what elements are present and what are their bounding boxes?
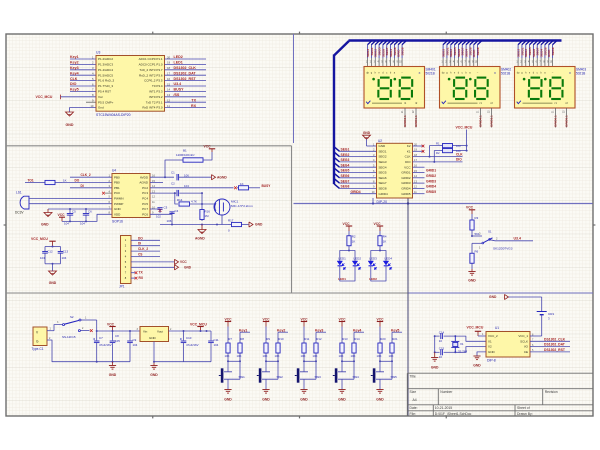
svg-text:C3: C3 xyxy=(164,206,168,210)
wire output caps ground rail xyxy=(184,361,212,363)
svg-text:10K: 10K xyxy=(389,354,394,358)
wire JP1 pins xyxy=(131,239,160,241)
svg-text:DIO: DIO xyxy=(456,158,462,162)
wire speaker to U4 PWMN xyxy=(29,197,112,199)
capacitor C1 106 xyxy=(176,174,178,180)
wire R4 to LEDs xyxy=(379,250,381,252)
svg-text:AGND: AGND xyxy=(217,175,227,179)
svg-text:SEG6: SEG6 xyxy=(341,174,350,178)
wire U4 AGND pin15 xyxy=(150,182,163,184)
driver chip U2 DIP-20 xyxy=(377,143,413,198)
svg-text:VCC_MCU: VCC_MCU xyxy=(31,237,48,241)
resistor R3 5K1 xyxy=(471,214,473,220)
svg-text:Key4: Key4 xyxy=(70,71,79,75)
svg-text:5021B: 5021B xyxy=(426,72,435,76)
wire U4 AVDD pin16 xyxy=(150,176,174,178)
sheet zone ticks xyxy=(152,32,154,34)
svg-text:PC0: PC0 xyxy=(114,191,120,195)
resistor R15 1K xyxy=(38,182,45,184)
svg-text:JP1: JP1 xyxy=(119,284,125,288)
svg-text:R2: R2 xyxy=(436,151,440,155)
ground GND below SW3 xyxy=(300,389,307,391)
ground GND below SW1 xyxy=(224,389,231,391)
svg-text:TO1: TO1 xyxy=(28,179,34,183)
push button SW2 xyxy=(265,361,267,372)
svg-text:PC7: PC7 xyxy=(142,207,148,211)
resistor R6 xyxy=(471,248,473,254)
bus SEG horizontal xyxy=(349,39,562,41)
svg-text:VCC: VCC xyxy=(180,260,187,264)
svg-text:GRID3.1: GRID3.1 xyxy=(490,115,494,127)
svg-text:106: 106 xyxy=(167,219,172,223)
resistor R21 10K xyxy=(391,338,393,343)
svg-text:D:\01F_\Sheet1.SchDoc: D:\01F_\Sheet1.SchDoc xyxy=(435,412,472,416)
svg-text:RxD INT4 P3.0: RxD INT4 P3.0 xyxy=(142,106,163,110)
wire U3 right pins xyxy=(165,58,207,60)
section divider vertical grey (middle) xyxy=(291,146,293,293)
svg-text:VCC: VCC xyxy=(58,213,66,217)
svg-text:GND: GND xyxy=(49,281,57,285)
svg-text:SEG1: SEG1 xyxy=(379,149,387,153)
wire resistor junction Key1 xyxy=(227,358,229,361)
push button SW3 xyxy=(303,361,305,372)
svg-text:VDD: VDD xyxy=(114,212,121,216)
svg-text:R21: R21 xyxy=(392,337,398,341)
svg-text:PWMN: PWMN xyxy=(114,197,124,201)
svg-text:GRID1.1: GRID1.1 xyxy=(414,115,418,127)
svg-text:10: 10 xyxy=(90,104,94,108)
section divider vertical blue (top) xyxy=(293,34,295,143)
svg-text:SEG3: SEG3 xyxy=(341,158,350,162)
wire U4 pin2 xyxy=(62,182,112,184)
svg-text:Size: Size xyxy=(410,390,417,394)
svg-text:DS1302_RST: DS1302_RST xyxy=(174,77,197,81)
wire SM401 bottom pins xyxy=(404,108,406,128)
svg-text:32.768: 32.768 xyxy=(458,350,468,354)
svg-text:ADC0 CCP1 P1.0: ADC0 CCP1 P1.0 xyxy=(139,63,163,67)
svg-text:10-21-2015: 10-21-2015 xyxy=(435,406,452,410)
no-connect X at U4 pin4 xyxy=(102,192,105,195)
svg-text:1K: 1K xyxy=(352,240,356,244)
wire S2 common to VCC rail xyxy=(81,319,97,321)
svg-text:SEG8: SEG8 xyxy=(379,187,387,191)
svg-text:PB0: PB0 xyxy=(114,181,120,185)
svg-text:X: X xyxy=(419,71,421,75)
wire U4 GND rail xyxy=(48,208,112,210)
wire U2 right pins xyxy=(413,145,425,147)
svg-text:AGND: AGND xyxy=(195,237,205,241)
svg-text:SW1: SW1 xyxy=(239,375,246,379)
svg-text:DIO: DIO xyxy=(70,82,77,86)
svg-text:PC5: PC5 xyxy=(142,202,148,206)
svg-text:PB1: PB1 xyxy=(114,186,120,190)
svg-text:C15: C15 xyxy=(439,347,445,351)
capacitor C10 47uF/16V xyxy=(183,331,185,340)
svg-text:C11: C11 xyxy=(214,338,219,342)
svg-text:VCC_MCU: VCC_MCU xyxy=(456,126,473,130)
crystal Y1 32.768 xyxy=(454,336,456,341)
svg-text:DS1302_DAT: DS1302_DAT xyxy=(174,71,197,75)
svg-text:AVDD: AVDD xyxy=(140,175,149,179)
svg-text:RxD_2 INT2 P3.6: RxD_2 INT2 P3.6 xyxy=(139,73,163,77)
wire VDD rail to U4 pin8 xyxy=(62,214,112,221)
power port VCC at JP1 xyxy=(175,259,179,264)
svg-text:PC2: PC2 xyxy=(142,186,148,190)
wire U1 VCC_1 to battery xyxy=(530,335,542,337)
svg-text:Vin: Vin xyxy=(143,329,148,333)
svg-text:R13: R13 xyxy=(342,337,348,341)
svg-text:Date:: Date: xyxy=(410,406,418,410)
wire Key4 to R14 xyxy=(354,331,364,333)
svg-text:104: 104 xyxy=(80,221,85,225)
svg-text:VCC: VCC xyxy=(343,222,351,226)
svg-text:VCC: VCC xyxy=(225,317,233,321)
svg-text:C2: C2 xyxy=(171,182,175,186)
ferrite bead B1 120R/100mhz xyxy=(165,160,183,177)
svg-text:S2: S2 xyxy=(70,315,74,319)
svg-text:DI: DI xyxy=(138,242,141,246)
capacitor C6 104 xyxy=(85,208,87,210)
bus SEG vertical xyxy=(333,55,335,185)
svg-text:Number: Number xyxy=(440,390,453,394)
wire analog ground rail xyxy=(160,224,228,226)
section divider vertical x=408 xyxy=(407,197,409,416)
power port AGND right of C1 xyxy=(212,175,216,180)
svg-text:C5: C5 xyxy=(72,210,76,214)
svg-text:DIP-20: DIP-20 xyxy=(377,200,388,204)
svg-text:C1: C1 xyxy=(171,171,175,175)
svg-text:C9: C9 xyxy=(133,338,137,342)
svg-text:DO: DO xyxy=(138,236,143,240)
svg-text:10: 10 xyxy=(439,339,443,343)
svg-text:T0 P3.4: T0 P3.4 xyxy=(152,84,163,88)
ground GND crystal xyxy=(431,357,438,359)
connector Type-C1 xyxy=(33,327,47,346)
svg-text:DS1302_RST: DS1302_RST xyxy=(544,348,566,352)
svg-text:R16: R16 xyxy=(205,210,211,214)
svg-text:GND: GND xyxy=(489,295,497,299)
wire resistor junction Key4 xyxy=(341,358,343,361)
svg-text:File:: File: xyxy=(410,412,416,416)
svg-text:BUSY: BUSY xyxy=(174,88,185,92)
wire SM403 bottom pins xyxy=(555,108,557,128)
wire U4 PC2 pin14 to BUSY xyxy=(150,187,234,189)
resistor R9 10K xyxy=(265,338,267,343)
svg-text:SEG9: SEG9 xyxy=(400,47,404,55)
svg-text:MIC-4.5*2.2mm: MIC-4.5*2.2mm xyxy=(231,204,253,208)
svg-text:Sheet of: Sheet of xyxy=(517,406,530,410)
svg-text:104: 104 xyxy=(40,256,45,260)
7-segment display SM401 xyxy=(364,67,425,109)
wire U4 PC3 pin13 to mic xyxy=(150,192,176,194)
svg-text:VCC: VCC xyxy=(374,222,382,226)
wire U4 pin1 xyxy=(70,176,112,178)
svg-text:VCC_MCU: VCC_MCU xyxy=(190,322,207,326)
svg-text:C12: C12 xyxy=(47,249,53,253)
resistor R13 10K xyxy=(341,338,343,343)
wire X1 X2 crystal network xyxy=(455,336,486,341)
svg-text:VCC: VCC xyxy=(107,322,115,326)
svg-text:GRID3: GRID3 xyxy=(401,181,411,185)
wire SW3 to ground xyxy=(303,379,305,389)
svg-text:P1.6 RxD_3: P1.6 RxD_3 xyxy=(98,79,115,83)
capacitor C8 105 xyxy=(112,331,114,340)
svg-text:DO: DO xyxy=(75,179,80,183)
svg-text:X: X xyxy=(569,71,571,75)
svg-text:1K: 1K xyxy=(383,240,387,244)
svg-text:SEG4: SEG4 xyxy=(379,165,387,169)
svg-text:10K: 10K xyxy=(351,354,356,358)
svg-text:X2: X2 xyxy=(488,345,492,349)
svg-text:Gnd: Gnd xyxy=(98,106,104,110)
svg-text:P1.2/ADC2: P1.2/ADC2 xyxy=(98,57,113,61)
svg-text:SS-12F15: SS-12F15 xyxy=(62,335,76,339)
header JP1 xyxy=(121,236,132,284)
svg-text:STC15W404AS-DIP20: STC15W404AS-DIP20 xyxy=(96,113,131,117)
svg-text:SEG4: SEG4 xyxy=(341,163,350,167)
wire resistor junction Key3 xyxy=(303,358,305,361)
wire SW4 to ground xyxy=(341,379,343,389)
power port GND right of R17 xyxy=(245,224,249,226)
svg-text:LED1: LED1 xyxy=(338,277,346,281)
capacitor C5 104 xyxy=(69,208,71,210)
wire crystal caps to ground xyxy=(434,336,436,352)
wire U4 pin3 xyxy=(70,187,112,189)
svg-text:RX: RX xyxy=(191,104,197,108)
svg-text:U1: U1 xyxy=(495,326,499,330)
svg-text:P1.5/ADC5: P1.5/ADC5 xyxy=(98,73,113,77)
svg-text:DIP-8: DIP-8 xyxy=(487,359,496,363)
wire U1 CE xyxy=(530,351,570,353)
resistor R14 4.7K xyxy=(175,193,178,204)
svg-text:LS1: LS1 xyxy=(16,191,22,195)
wire U2 pin10 xyxy=(350,193,377,195)
svg-text:C6: C6 xyxy=(88,210,92,214)
svg-text:Key5: Key5 xyxy=(391,328,399,332)
resistor R17 0 xyxy=(228,224,232,226)
svg-text:10: 10 xyxy=(439,355,443,359)
battery CR1 xyxy=(541,297,543,312)
wire Key3 to R12 xyxy=(316,331,326,333)
svg-text:GND: GND xyxy=(224,398,232,402)
svg-text:GRID4: GRID4 xyxy=(379,192,389,196)
svg-text:DS1302_CLK: DS1302_CLK xyxy=(544,337,566,341)
svg-text:DC3V: DC3V xyxy=(15,211,24,215)
section divider horizontal grey (left) xyxy=(6,145,292,147)
capacitor C3 102 with no-connect xyxy=(150,208,160,210)
svg-text:5021B: 5021B xyxy=(501,72,510,76)
svg-text:104: 104 xyxy=(184,184,189,188)
svg-text:GRID4: GRID4 xyxy=(401,187,411,191)
wire speaker to U4 PWMP xyxy=(29,203,112,205)
wire VCC rail to regulator xyxy=(97,330,140,332)
svg-text:R1: R1 xyxy=(436,142,440,146)
svg-text:R17: R17 xyxy=(228,219,234,223)
wire R2 to LEDs xyxy=(348,250,350,252)
svg-text:CLK_2: CLK_2 xyxy=(81,173,91,177)
svg-text:R11: R11 xyxy=(304,337,309,341)
capacitor C7 47uF/16V xyxy=(96,331,98,340)
capacitor C14 10 xyxy=(444,335,456,337)
svg-text:R10: R10 xyxy=(278,337,284,341)
wire Type-C V to S2 xyxy=(47,330,54,332)
svg-text:10K: 10K xyxy=(301,354,306,358)
power port GND at JP1 xyxy=(175,265,179,270)
svg-text:104: 104 xyxy=(64,221,69,225)
wire SW1 to ground xyxy=(227,379,229,389)
section divider horizontal blue y=203.5 xyxy=(294,203,593,205)
svg-text:GND: GND xyxy=(109,373,117,377)
svg-text:GRID4: GRID4 xyxy=(351,190,361,194)
svg-text:10K: 10K xyxy=(377,354,382,358)
wire S1 pin2 to net U3.4 xyxy=(490,240,495,241)
svg-text:Type-C1: Type-C1 xyxy=(32,347,44,351)
wire resistor junction Key5 xyxy=(379,358,381,361)
svg-text:VCC: VCC xyxy=(404,165,411,169)
svg-text:SEG5: SEG5 xyxy=(379,171,387,175)
svg-text:104: 104 xyxy=(62,256,67,260)
wire U3 pin 9 stub xyxy=(86,101,96,103)
svg-text:LED1: LED1 xyxy=(174,61,183,65)
svg-text:GRID5.1: GRID5.1 xyxy=(565,115,569,127)
svg-text:10K: 10K xyxy=(313,354,318,358)
wire MIC1 bottom to rail xyxy=(221,215,223,225)
svg-text:VCC_1: VCC_1 xyxy=(518,334,528,338)
svg-text:U3: U3 xyxy=(96,51,100,55)
capacitor C11 104 xyxy=(210,331,212,340)
svg-text:GRID3: GRID3 xyxy=(426,179,436,183)
wire regulator output xyxy=(169,330,212,332)
resistor R5 1K on BUSY line xyxy=(237,187,239,189)
svg-text:R8: R8 xyxy=(240,337,244,341)
microphone MIC1 xyxy=(214,199,230,215)
svg-text:K1: K1 xyxy=(407,149,411,153)
svg-text:10K: 10K xyxy=(339,354,344,358)
svg-text:AGND: AGND xyxy=(139,181,149,185)
svg-text:R12: R12 xyxy=(316,337,322,341)
7-segment display SM402 xyxy=(440,67,501,109)
svg-text:SK12D07VG3: SK12D07VG3 xyxy=(493,247,513,251)
svg-text:SW4: SW4 xyxy=(353,375,360,379)
wire pull-ups to VCC_MCU xyxy=(455,145,467,147)
svg-text:C8: C8 xyxy=(115,334,119,338)
RTC chip U1 DS1302 DIP-8 xyxy=(486,332,530,358)
ground GND below R6 xyxy=(471,269,473,272)
wire S1 pin1 to R6 xyxy=(471,243,473,247)
svg-text:BUSY: BUSY xyxy=(262,184,272,188)
svg-text:SEG3: SEG3 xyxy=(379,160,387,164)
svg-text:SEG9: SEG9 xyxy=(551,47,555,55)
wire resistor junction Key2 xyxy=(265,358,267,361)
svg-text:CLK_2: CLK_2 xyxy=(138,247,148,251)
svg-text:GND: GND xyxy=(431,365,439,369)
svg-text:GRID1: GRID1 xyxy=(401,171,411,175)
svg-text:10K: 10K xyxy=(275,354,280,358)
wire U2 bottom to rail xyxy=(372,198,374,204)
svg-text:DI: DI xyxy=(81,184,84,188)
svg-text:CS: CS xyxy=(138,253,142,257)
MCU U3 STC15W404AS-DIP20 xyxy=(96,56,165,112)
svg-text:Drawn By:: Drawn By: xyxy=(517,412,533,416)
wire Type-C G to ground rail xyxy=(47,340,130,362)
svg-text:PWMP: PWMP xyxy=(114,202,123,206)
svg-text:SOP16: SOP16 xyxy=(112,220,123,224)
svg-text:1M: 1M xyxy=(205,214,210,218)
svg-text:Key2: Key2 xyxy=(70,61,79,65)
svg-text:VCC: VCC xyxy=(377,317,385,321)
svg-text:ADC1 CCP0 P1.1: ADC1 CCP0 P1.1 xyxy=(139,57,163,61)
resistor R4 1K xyxy=(379,231,381,236)
wire R1 to CLK net xyxy=(430,146,441,157)
svg-text:10K: 10K xyxy=(237,354,242,358)
svg-text:GRID2: GRID2 xyxy=(401,176,411,180)
resistor R1 10K xyxy=(440,145,443,147)
svg-text:PC3: PC3 xyxy=(142,191,148,195)
svg-text:GND: GND xyxy=(473,364,481,368)
svg-text:4.7K: 4.7K xyxy=(191,199,197,203)
svg-text:VCC: VCC xyxy=(204,145,212,149)
svg-text:R14: R14 xyxy=(354,337,360,341)
audio chip U4 SOP16 xyxy=(112,174,150,218)
svg-text:GRID4.1: GRID4.1 xyxy=(479,115,483,127)
svg-text:VCC: VCC xyxy=(301,317,309,321)
svg-text:R9: R9 xyxy=(266,337,270,341)
svg-text:LED3: LED3 xyxy=(369,257,377,261)
svg-text:X1: X1 xyxy=(488,339,492,343)
svg-text:SEG1: SEG1 xyxy=(341,148,350,152)
svg-text:Key1: Key1 xyxy=(70,55,79,59)
ground GND left of C5 xyxy=(47,209,49,213)
wire LED cathodes to net LED2 xyxy=(371,266,386,281)
svg-text:SEG7: SEG7 xyxy=(341,179,350,183)
svg-text:47uF/16V: 47uF/16V xyxy=(99,343,112,347)
capacitor C13 104 xyxy=(60,247,62,252)
svg-text:TxD_2 INT3 P3.7: TxD_2 INT3 P3.7 xyxy=(139,68,163,72)
regulator U6 Vin/Vout xyxy=(140,327,169,342)
svg-text:GND: GND xyxy=(376,398,384,402)
svg-text:SEG5: SEG5 xyxy=(341,169,350,173)
svg-text:102: 102 xyxy=(156,215,161,219)
svg-text:SEG2: SEG2 xyxy=(341,153,350,157)
svg-text:GRID5: GRID5 xyxy=(401,192,411,196)
svg-text:TxD T2 P3.1: TxD T2 P3.1 xyxy=(146,100,163,104)
svg-text:GND: GND xyxy=(114,207,122,211)
svg-text:Key2: Key2 xyxy=(277,328,285,332)
svg-text:R20: R20 xyxy=(380,337,386,341)
svg-text:INT0 P3.2: INT0 P3.2 xyxy=(149,95,163,99)
push button SW1 xyxy=(227,361,229,372)
ground GND below SW4 xyxy=(338,389,345,391)
wire U1 GND pin xyxy=(477,352,486,356)
wire decoupling rail bottom xyxy=(45,263,61,265)
svg-text:SEG6: SEG6 xyxy=(379,176,387,180)
wire R2 to DIO net xyxy=(434,151,440,162)
wire LED cathodes to net LED1 xyxy=(340,266,355,281)
wire U1 I/O xyxy=(530,346,570,348)
capacitor C12 104 xyxy=(44,247,46,252)
resistor R2 1K xyxy=(348,231,350,236)
wire SM403 top pins to bus xyxy=(517,44,519,58)
svg-text:C13: C13 xyxy=(63,249,69,253)
svg-text:Key1: Key1 xyxy=(239,328,247,332)
push button SW5 xyxy=(379,361,381,372)
ground GND below decoupling xyxy=(52,264,54,271)
svg-text:GRID2.1: GRID2.1 xyxy=(403,115,407,127)
svg-text:C7: C7 xyxy=(99,336,103,340)
svg-text:CE: CE xyxy=(524,350,528,354)
svg-text:R7: R7 xyxy=(228,337,232,341)
wire SM402 top pins to bus xyxy=(442,44,444,58)
